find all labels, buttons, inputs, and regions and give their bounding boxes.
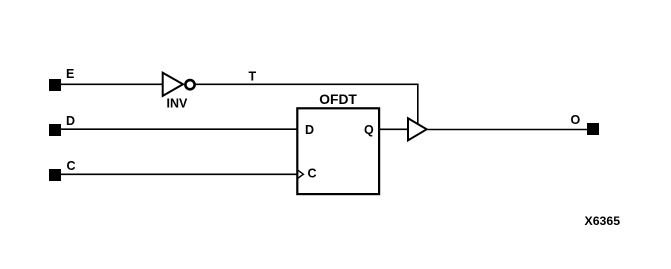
svg-text:D: D [305, 123, 314, 137]
inverter output bubble [185, 80, 194, 89]
svg-text:E: E [66, 67, 74, 81]
tri-state buffer [408, 118, 427, 140]
inverter INV [163, 73, 183, 96]
wire Q to buffer [379, 128, 407, 130]
clock input chevron [298, 170, 304, 179]
wire D to flip-flop D input [61, 128, 297, 130]
flip-flop U1 OFDT body [297, 108, 379, 194]
svg-text:INV: INV [167, 97, 189, 111]
output pin O [587, 123, 599, 135]
svg-text:C: C [67, 159, 76, 173]
svg-text:T: T [249, 70, 257, 84]
svg-text:Q: Q [364, 123, 374, 137]
input pin C [49, 169, 61, 181]
input pin E [49, 79, 61, 91]
svg-text:O: O [571, 113, 581, 127]
wire C to flip-flop clock input [61, 173, 297, 175]
wire E to inverter input [61, 83, 162, 85]
input pin D [49, 124, 61, 136]
svg-text:D: D [66, 114, 75, 128]
svg-text:X6365: X6365 [585, 214, 621, 228]
wire buffer output to pin O [428, 129, 587, 131]
svg-text:OFDT: OFDT [319, 92, 357, 107]
svg-text:C: C [308, 167, 317, 181]
wire T: inverter output to corner [195, 83, 419, 85]
wire T vertical drop to buffer enable [417, 84, 419, 123]
